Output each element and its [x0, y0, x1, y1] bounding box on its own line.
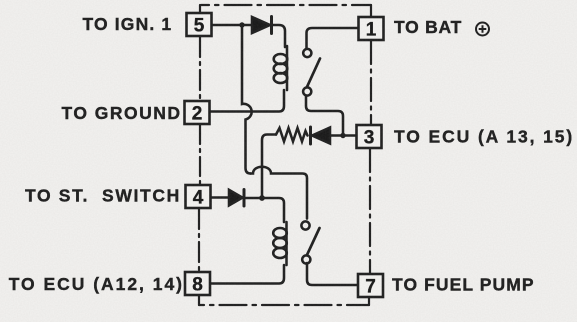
pin box 1 — [359, 17, 384, 40]
wire pin4 to diode D3 — [211, 196, 229, 199]
switch SW2 bottom terminal — [302, 255, 310, 263]
battery plus symbol — [476, 23, 489, 36]
switch SW2 top terminal — [301, 221, 309, 229]
pin box 4 — [186, 185, 211, 208]
switch SW1 bottom terminal — [303, 87, 311, 95]
relay case dash-dot border right — [370, 5, 372, 16]
switch SW1 blade — [307, 59, 320, 88]
diode D1 (anode left, points right) — [252, 17, 270, 33]
node junction on pin3 wire — [340, 133, 345, 138]
pin box 3 — [357, 125, 382, 148]
switch SW1 top terminal — [303, 49, 311, 57]
node junction on pin5 wire — [239, 22, 244, 27]
wire vertical from pin5 junction with hop over pin2 wire — [242, 25, 252, 174]
wire coil L1 bottom to pin2 — [210, 90, 284, 112]
wire D3 to coil L2 top — [246, 198, 284, 222]
resistor R lead from pin4 node — [262, 135, 276, 198]
wire D1 to coil L1 top — [273, 25, 285, 47]
relay case dash-dot border left — [199, 5, 201, 13]
node junction resistor lead meets pin4 wire — [259, 195, 265, 201]
wire coil L2 bottom to pin8 — [210, 265, 284, 284]
relay case dash-dot border bottom — [199, 304, 369, 306]
diode D3 (anode left, points right) — [229, 190, 243, 206]
pin box 7 — [358, 274, 383, 297]
switch SW2 blade — [307, 228, 320, 255]
pin box 2 — [185, 101, 210, 124]
wire D2 to pin3 — [330, 134, 356, 137]
pin box 5 — [185, 13, 384, 297]
wire pin1 to switch SW1 — [307, 28, 359, 48]
coil L2 — [273, 222, 287, 265]
scan noise overlay — [0, 0, 1, 1]
resistor R zigzag — [276, 128, 308, 142]
wire pin5 to diode D1 — [211, 24, 252, 27]
coil L1 — [274, 46, 288, 90]
pin box 8 — [185, 272, 210, 295]
diode D2 (points left toward resistor) — [309, 127, 312, 144]
wire SW1 bottom terminal to D2/pin3 wire — [306, 96, 343, 135]
wire SW2 bottom terminal to pin7 — [307, 263, 358, 285]
relay case dash-dot border top — [201, 4, 371, 6]
wire horizontal to top contact of switch SW2 with hop over resistor lead — [251, 167, 308, 219]
